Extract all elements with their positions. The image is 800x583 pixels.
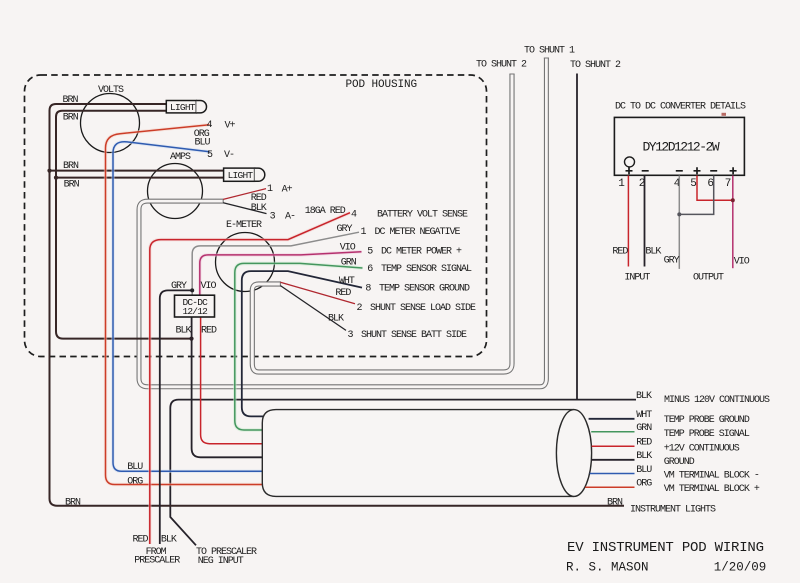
- svg-text:RED: RED: [133, 535, 149, 546]
- wire jumper pin 5 to pin 7: [697, 176, 733, 201]
- wire BRN amps light -: [56, 177, 224, 179]
- heavy wire tube E-METER shunt sense to SHUNT 2: [252, 74, 514, 372]
- svg-text:BRN: BRN: [607, 498, 623, 509]
- svg-text:TO SHUNT 2: TO SHUNT 2: [476, 60, 527, 71]
- svg-text:BLK: BLK: [636, 451, 652, 462]
- wire BRN instrument lights return (volts light -) to DC-DC BLK: [56, 111, 192, 339]
- svg-text:7: 7: [725, 178, 732, 190]
- converter DC-DC 12/12: [175, 295, 215, 317]
- svg-text:AMPS: AMPS: [170, 152, 191, 163]
- svg-text:WHT: WHT: [636, 410, 652, 421]
- wire RED +12V from DC-DC into cable: [201, 317, 310, 443]
- wire BLK from prescaler joining GRY: [160, 290, 192, 544]
- pin polarity marks: [626, 167, 737, 174]
- svg-text:R. S. MASON: R. S. MASON: [566, 561, 649, 575]
- svg-text:GRN: GRN: [636, 423, 652, 434]
- wire GRN temp sensor signal into cable: [235, 263, 363, 430]
- svg-text:+12V CONTINUOUS: +12V CONTINUOUS: [664, 444, 740, 455]
- wire BRN amps light +: [50, 170, 224, 172]
- meter AMPS: [148, 164, 203, 219]
- svg-text:LIGHT: LIGHT: [228, 170, 254, 181]
- svg-text:VIO: VIO: [201, 281, 217, 292]
- wire ORG vm terminal block + exit: [585, 486, 634, 488]
- svg-text:12/12: 12/12: [183, 306, 209, 317]
- cable jacket: [262, 410, 591, 497]
- svg-text:BRN: BRN: [63, 113, 79, 124]
- svg-text:VOLTS: VOLTS: [98, 85, 124, 96]
- lamp LIGHT amps: [224, 168, 265, 181]
- wire WHT temp sensor ground (navy) into cable: [242, 271, 362, 416]
- svg-text:GRY: GRY: [664, 256, 680, 267]
- svg-text:BRN: BRN: [65, 497, 81, 508]
- wire GRY dc meter negative to DC-DC: [192, 232, 359, 295]
- svg-text:GRY: GRY: [337, 224, 353, 235]
- wire RED amps A+ lead: [223, 189, 266, 200]
- svg-text:RED: RED: [201, 326, 217, 337]
- meter E-METER: [216, 233, 275, 292]
- junction BRN taps: [47, 169, 51, 173]
- svg-text:DC METER POWER +: DC METER POWER +: [381, 247, 462, 258]
- svg-text:ORG: ORG: [127, 477, 143, 488]
- wire ORG volts V+ into cable: [106, 125, 311, 485]
- wire BLK amps A- lead: [223, 203, 266, 214]
- svg-text:18GA RED: 18GA RED: [305, 206, 346, 217]
- wire RED +12V continuous exit: [592, 445, 635, 447]
- svg-text:BLK: BLK: [645, 247, 661, 258]
- pod housing boundary: [25, 75, 487, 357]
- svg-text:1/20/09: 1/20/09: [714, 561, 767, 575]
- wire WHT temp probe ground exit: [589, 418, 635, 420]
- svg-text:SHUNT SENSE BATT SIDE: SHUNT SENSE BATT SIDE: [361, 330, 467, 341]
- wire BLK ground exit: [591, 459, 634, 461]
- svg-text:VM TERMINAL BLOCK +: VM TERMINAL BLOCK +: [664, 484, 760, 495]
- converter details block: [612, 102, 749, 284]
- meter VOLTS: [81, 94, 140, 153]
- svg-text:BRN: BRN: [63, 161, 79, 172]
- svg-text:BRN: BRN: [64, 180, 80, 191]
- wire jumper pin 6 to pin 4: [679, 176, 713, 215]
- svg-text:RED: RED: [335, 288, 351, 299]
- svg-text:INPUT: INPUT: [624, 273, 650, 284]
- svg-text:1: 1: [618, 178, 625, 190]
- svg-text:TEMP SENSOR GROUND: TEMP SENSOR GROUND: [379, 284, 470, 295]
- svg-text:RED: RED: [636, 438, 652, 449]
- svg-text:ORG: ORG: [636, 478, 652, 489]
- svg-text:POD HOUSING: POD HOUSING: [346, 79, 418, 91]
- pin 1 index circle: [625, 157, 635, 167]
- wire BLK input pin 2: [644, 176, 646, 267]
- scan artifact mark: [722, 113, 727, 116]
- svg-text:OUTPUT: OUTPUT: [693, 273, 724, 284]
- svg-text:V+: V+: [225, 121, 236, 132]
- junction BRN return to BLK ground: [189, 337, 193, 341]
- svg-text:TO SHUNT 2: TO SHUNT 2: [570, 60, 621, 71]
- svg-text:E-METER: E-METER: [226, 220, 262, 231]
- svg-text:INSTRUMENT LIGHTS: INSTRUMENT LIGHTS: [630, 505, 716, 516]
- svg-text:BLK: BLK: [176, 326, 192, 337]
- wire RED input pin 1: [627, 176, 629, 267]
- svg-text:GRY: GRY: [171, 281, 187, 292]
- svg-text:TEMP PROBE SIGNAL: TEMP PROBE SIGNAL: [664, 429, 750, 440]
- wire BLU volts V- into cable: [113, 142, 310, 472]
- svg-text:BLK: BLK: [161, 535, 177, 546]
- wire VIO dc meter power + to DC-DC: [200, 252, 362, 296]
- wire BLK to shunt 2 (right vertical): [576, 74, 578, 400]
- svg-text:EV INSTRUMENT POD WIRING: EV INSTRUMENT POD WIRING: [567, 540, 764, 556]
- svg-text:BLU: BLU: [195, 137, 211, 148]
- svg-text:MINUS 120V CONTINUOUS: MINUS 120V CONTINUOUS: [664, 395, 770, 406]
- svg-text:SHUNT SENSE LOAD SIDE: SHUNT SENSE LOAD SIDE: [370, 303, 476, 314]
- svg-text:TEMP SENSOR SIGNAL: TEMP SENSOR SIGNAL: [381, 264, 472, 275]
- svg-text:BLK: BLK: [636, 391, 652, 402]
- svg-text:BLK: BLK: [328, 313, 344, 324]
- wire GRN temp probe signal exit: [591, 431, 634, 433]
- wire BLU vm terminal block - exit: [590, 473, 635, 475]
- junction pin jumpers: [731, 198, 735, 202]
- svg-text:DC TO DC CONVERTER DETAILS: DC TO DC CONVERTER DETAILS: [615, 102, 746, 113]
- heavy wire tube AMPS meter to SHUNT 1: [139, 58, 549, 387]
- wire BLK minus 120V continuous / to prescaler neg input: [170, 400, 636, 546]
- svg-text:A-: A-: [285, 212, 295, 223]
- svg-text:BLU: BLU: [127, 462, 143, 473]
- lamp LIGHT volts: [166, 101, 206, 114]
- svg-text:DC METER NEGATIVE: DC METER NEGATIVE: [375, 227, 461, 238]
- svg-text:5: 5: [690, 178, 697, 190]
- junction prescaler BLK to GRY: [190, 288, 194, 292]
- svg-text:RED: RED: [612, 247, 628, 258]
- svg-text:BLK: BLK: [251, 203, 267, 214]
- svg-text:VM TERMINAL BLOCK -: VM TERMINAL BLOCK -: [664, 471, 759, 482]
- svg-text:V-: V-: [224, 150, 234, 161]
- svg-text:VIO: VIO: [734, 257, 750, 268]
- svg-text:GRN: GRN: [341, 258, 357, 269]
- wire GRY output pin 4: [678, 176, 680, 269]
- svg-text:LIGHT: LIGHT: [170, 102, 196, 113]
- svg-text:BATTERY VOLT SENSE: BATTERY VOLT SENSE: [377, 210, 468, 221]
- svg-text:BLU: BLU: [636, 465, 652, 476]
- wire BLK shunt sense batt side lead: [280, 286, 346, 331]
- wire RED shunt sense load side lead: [280, 282, 355, 304]
- wire BRN instrument lights feed (volts light +): [50, 104, 625, 506]
- converter DY12D1212-2W: [614, 117, 744, 175]
- svg-text:BRN: BRN: [63, 95, 79, 106]
- wire VIO output pin 7: [732, 176, 734, 269]
- svg-text:NEG INPUT: NEG INPUT: [198, 556, 244, 567]
- svg-text:VIO: VIO: [340, 243, 356, 254]
- svg-text:A+: A+: [282, 184, 293, 195]
- svg-text:DY12D1212-2W: DY12D1212-2W: [643, 140, 720, 155]
- svg-text:WHT: WHT: [339, 276, 355, 287]
- svg-text:PRESCALER: PRESCALER: [134, 556, 180, 567]
- svg-text:TEMP PROBE GROUND: TEMP PROBE GROUND: [664, 415, 750, 426]
- svg-text:TO SHUNT 1: TO SHUNT 1: [524, 45, 575, 56]
- wire BLK ground from DC-DC into cable: [192, 317, 310, 457]
- wire RED 18GA battery volt sense from prescaler: [150, 213, 350, 544]
- svg-text:GROUND: GROUND: [664, 457, 695, 468]
